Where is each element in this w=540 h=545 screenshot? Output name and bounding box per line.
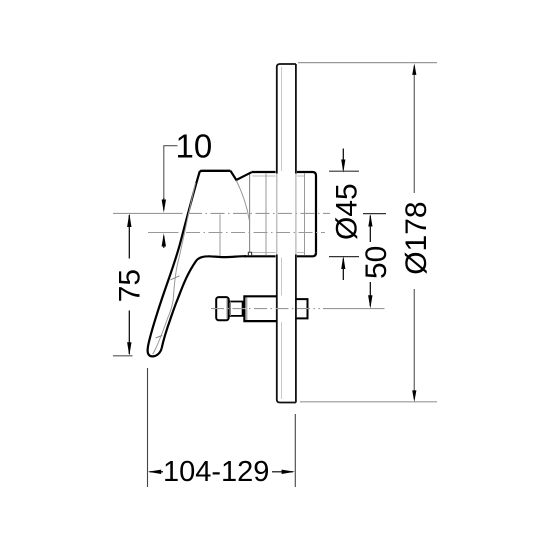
diverter body (244, 296, 277, 321)
pipe axis line 10mm below (148, 232, 325, 234)
dim 50 lower segment (369, 282, 371, 306)
dim 104-129 left extension line (147, 368, 149, 487)
dim Ø178 top arrow (412, 63, 416, 75)
dim 104-129 right extension line (294, 414, 296, 487)
lever tick 1 (171, 276, 180, 280)
dim 10 upper arrow (down to axis) (162, 200, 166, 213)
dim 10 leader elbow line (164, 146, 178, 198)
dim 104-129 line (148, 470, 295, 474)
svg-text:Ø178: Ø178 (400, 201, 433, 274)
diverter stem (229, 302, 243, 316)
wall plate front edge hidden through sleeve (276, 174, 278, 255)
dim Ø178 line (412, 63, 416, 402)
svg-text:75: 75 (113, 269, 146, 302)
dim Ø45 bottom arrow tail (342, 259, 344, 280)
lever outer edge (148, 171, 200, 356)
dim 50 lower arrow (368, 295, 372, 308)
dim Ø178 extension lines (298, 63, 437, 402)
diverter stem junction line (230, 302, 232, 316)
centerline main axis (113, 212, 330, 214)
sleeve right edge (315, 176, 317, 253)
diverter knob inner edge line (226, 299, 228, 319)
dim Ø178 upper segment (413, 66, 415, 193)
svg-text:Ø45: Ø45 (331, 183, 364, 240)
sleeve body (cartridge housing) (244, 172, 316, 256)
dim 10 lower arrow (up to pipe axis) (162, 233, 166, 246)
dim Ø45 top arrow (341, 160, 345, 173)
diverter knob (216, 297, 229, 320)
collar edge line (304, 173, 306, 255)
dim Ø178 bottom arrow (412, 390, 416, 402)
sleeve top edge (252, 172, 316, 176)
diverter body outline (244, 296, 277, 321)
dim 104-129 extension lines (148, 368, 296, 487)
dim Ø45 bottom tick (329, 256, 359, 258)
handle lever (148, 171, 246, 356)
sleeve bottom-left notch (248, 252, 251, 256)
dim 75 tick at handle tip level (113, 355, 133, 357)
sleeve bottom edge (244, 253, 316, 256)
dim 50 line (363, 214, 386, 309)
dim 75 lower arrow (127, 342, 131, 356)
escutcheon edge line (265, 173, 267, 255)
diverter axis centerline (211, 308, 385, 310)
svg-text:50: 50 (360, 246, 393, 279)
dim Ø178 top extension line (298, 62, 437, 64)
dim 75 line (113, 213, 133, 355)
dim 104-129 left segment (150, 471, 164, 473)
sleeve top highlight line (253, 175, 305, 177)
dim Ø178 lower segment (413, 289, 415, 399)
dim Ø45 ticks and arrows (329, 149, 359, 281)
cap top edge (200, 170, 231, 173)
dim 104-129 right arrow (282, 470, 295, 474)
dim Ø45 top arrow tail (342, 149, 344, 170)
sleeve left edge thin (249, 174, 251, 253)
diverter stem outline (229, 302, 243, 316)
dim 104-129 left arrow (148, 470, 161, 474)
dim 10 upper arrow tail (163, 198, 165, 210)
diverter body inner edge line (246, 298, 248, 321)
diverter outlet nub (296, 299, 308, 318)
dim 50 upper segment (369, 216, 371, 243)
wall plate back (right) edge at wall face (295, 64, 297, 403)
cap cone silhouette right (236, 181, 249, 221)
dim 75 lower segment (128, 311, 130, 355)
dim Ø45 bottom arrow (341, 256, 345, 269)
dim Ø45 top tick (329, 170, 359, 172)
wall plate front (left) edge (277, 64, 280, 403)
cap notch (231, 171, 252, 180)
dim Ø178 bottom extension line (300, 401, 437, 403)
svg-text:104-129: 104-129 (163, 456, 269, 488)
dim 75 upper arrow (127, 213, 131, 227)
dim 10 leader (162, 146, 178, 248)
cap inner vertical line (219, 215, 221, 256)
svg-text:10: 10 (176, 127, 213, 164)
diverter knob outline (216, 297, 229, 320)
wall plate back edge hidden through sleeve (295, 174, 297, 255)
dim 75 upper segment (128, 215, 130, 259)
dim 50 upper arrow (368, 214, 372, 226)
sleeve bottom highlight line (253, 252, 305, 254)
dim 104-129 right segment (272, 471, 293, 473)
dim 50 top tick at main axis (363, 213, 386, 215)
handle cap (200, 171, 252, 256)
wall plate top and bottom edges (280, 64, 296, 403)
wall plate inner shading line (281, 67, 283, 399)
lever inner edge and shoulder sweep (162, 256, 246, 348)
dim 10 lower arrow tail (163, 236, 165, 248)
diverter outlet nub outline (296, 299, 308, 318)
lever inner highlight line (153, 183, 196, 354)
lever tick 2 (156, 336, 163, 338)
wall plate (277, 64, 296, 403)
